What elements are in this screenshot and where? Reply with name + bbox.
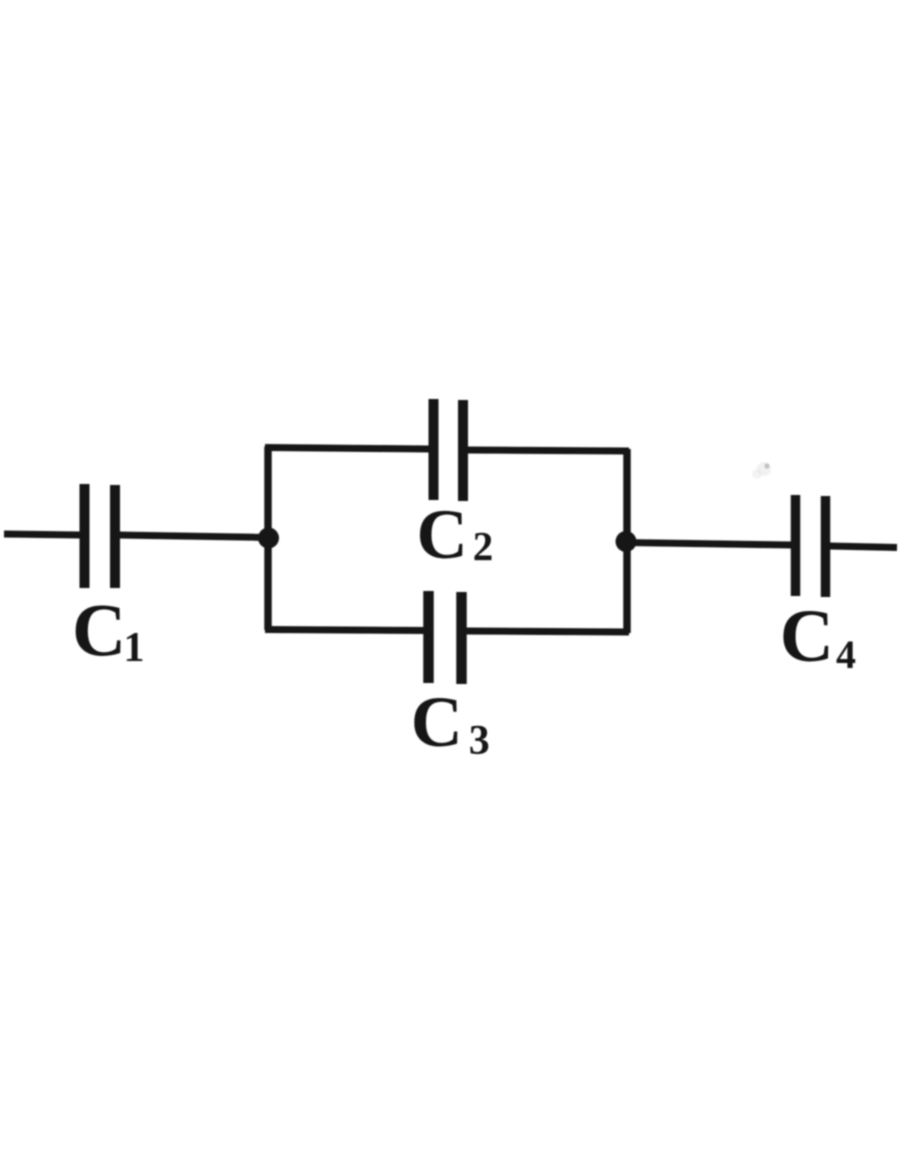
node A junction dot [258, 528, 279, 549]
wire left lead [4, 534, 80, 535]
capacitor C3 [429, 591, 462, 684]
wire right lead [829, 546, 897, 548]
svg-text:C: C [780, 595, 834, 678]
capacitor C4 [796, 495, 826, 597]
wire node B to C4 [627, 543, 793, 546]
svg-text:2: 2 [473, 523, 494, 569]
wire top right segment [466, 450, 629, 451]
wire right vertical of parallel box [623, 449, 631, 633]
svg-text:1: 1 [124, 625, 145, 671]
svg-text:C: C [411, 682, 463, 762]
svg-text:C: C [417, 496, 468, 574]
wire bottom left segment [265, 630, 426, 631]
wire left vertical of parallel box [264, 447, 272, 631]
capacitor C2 [434, 399, 464, 501]
wire top left segment [265, 448, 430, 450]
capacitor C1 [85, 484, 116, 588]
node B junction dot [616, 531, 637, 552]
smudge artifact [764, 463, 769, 468]
svg-text:3: 3 [469, 718, 490, 764]
wire bottom right segment [464, 631, 629, 632]
wire C1 to node A [119, 535, 270, 538]
svg-text:4: 4 [836, 632, 856, 677]
svg-text:C: C [72, 590, 126, 673]
